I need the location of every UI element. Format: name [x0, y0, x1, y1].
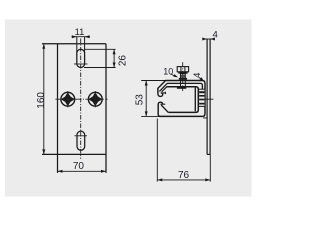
screw hole right: [88, 92, 102, 106]
shank into wall: [181, 80, 186, 87]
dimension 26: [84, 49, 116, 67]
bolt centerline: [182, 62, 184, 91]
plate outline: [42, 44, 106, 155]
dimension 4 (plate thickness, top): [203, 38, 215, 40]
top lip inner stub: [161, 92, 166, 94]
bottom slot (obround): [77, 131, 85, 150]
svg-text:26: 26: [118, 55, 129, 67]
inner cavity border (open at left): [167, 87, 199, 113]
svg-text:70: 70: [73, 161, 85, 172]
dimension 76: [156, 119, 158, 182]
top slot center tick: [74, 63, 88, 65]
profile outer contour: [158, 81, 205, 117]
svg-text:11: 11: [75, 27, 85, 37]
shank: [181, 74, 186, 78]
top lip hook: [158, 93, 163, 97]
hole centerline horizontal: [55, 98, 107, 100]
svg-text:4: 4: [192, 73, 203, 78]
svg-text:76: 76: [178, 170, 190, 181]
top slot (obround): [77, 49, 85, 67]
slot side extension lines up to 11-dim: [77, 37, 85, 54]
dimension 53: [141, 81, 166, 117]
dimension 11: [72, 36, 91, 38]
vertical centerline: [80, 39, 82, 159]
76 right extension: [209, 155, 211, 182]
mid (inner sheet) top line with chamfer: [159, 83, 202, 91]
cavity bottom-left chamfer diagonal: [161, 105, 168, 112]
cavity top-left chamfer diagonal: [162, 87, 167, 92]
svg-text:160: 160: [36, 92, 47, 109]
svg-text:4: 4: [213, 29, 218, 40]
vertical plate seen edge-on: [207, 39, 210, 155]
bottom lip inner stub: [160, 103, 165, 105]
screw hole left: [61, 92, 75, 106]
clamp jaw line: [194, 88, 196, 112]
profile bottom-right foot to plate: [203, 117, 207, 119]
flange: [179, 78, 187, 80]
serrated rack box: [199, 89, 205, 106]
dimension 70: [58, 170, 107, 172]
bolt: hex head: [177, 67, 188, 72]
svg-text:10: 10: [163, 67, 173, 77]
T nut inside cavity: [177, 86, 186, 89]
washer: [178, 72, 187, 74]
profile mid centerline tick: [205, 98, 214, 100]
bottom lip hook: [158, 102, 162, 104]
svg-text:53: 53: [134, 94, 145, 106]
dimension 160: [43, 44, 45, 155]
grey drawing panel: [5, 20, 252, 197]
